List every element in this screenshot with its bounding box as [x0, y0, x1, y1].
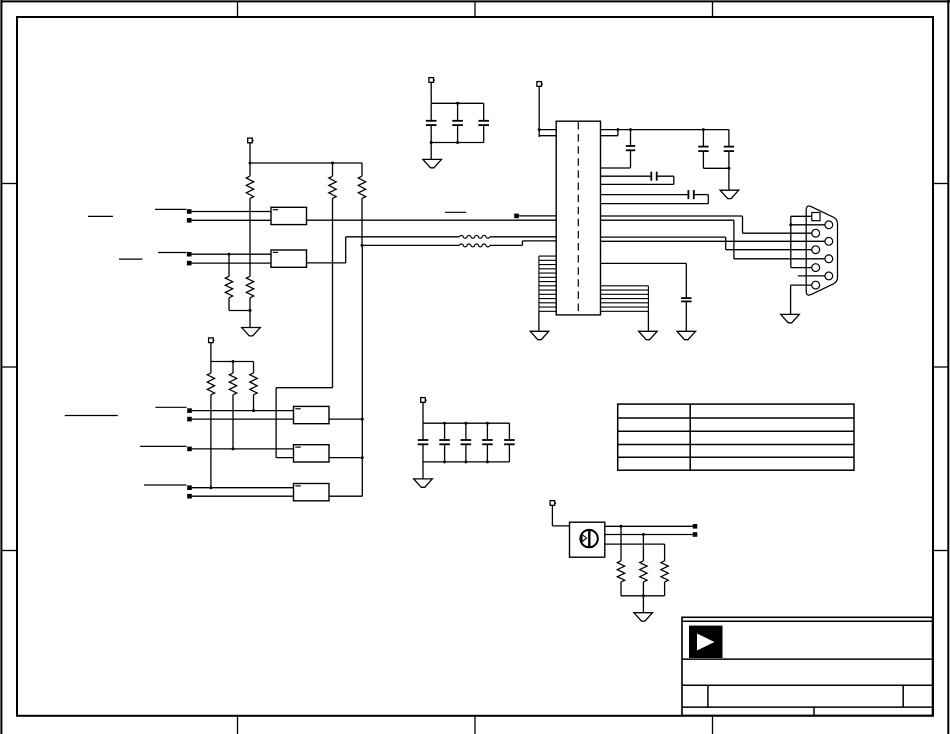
wire	[703, 167, 730, 170]
wire	[601, 195, 709, 204]
capacitor C9	[681, 298, 691, 301]
net label line RXD1	[88, 215, 113, 217]
capacitor C13	[482, 440, 493, 444]
wire	[457, 103, 459, 121]
capacitor C6	[724, 147, 734, 152]
wire	[642, 596, 644, 613]
ground	[530, 331, 549, 339]
power pin VCC6	[550, 501, 556, 506]
wire	[211, 360, 254, 363]
wire	[192, 418, 294, 420]
wire	[539, 135, 556, 137]
wire	[430, 143, 432, 160]
J1 pins 2-5 pads	[812, 229, 820, 289]
wire	[192, 447, 294, 450]
wire	[601, 263, 687, 298]
resistor R8	[250, 373, 257, 395]
wire	[642, 582, 644, 596]
port pin P4A	[187, 408, 192, 413]
wire	[430, 141, 484, 144]
J1 pin 9 stub	[798, 275, 825, 277]
wire	[192, 409, 294, 412]
wire	[192, 211, 272, 213]
connector J1 DB9 body	[806, 206, 837, 295]
net stub line	[144, 484, 187, 486]
wire	[483, 103, 485, 121]
wire	[210, 395, 212, 488]
ground	[414, 479, 433, 487]
wire	[249, 143, 251, 163]
wire	[423, 460, 509, 463]
wire	[249, 163, 251, 176]
title block	[682, 617, 933, 715]
wire	[728, 130, 730, 147]
wire	[702, 151, 704, 168]
capacitor C5	[698, 147, 708, 152]
wire	[307, 219, 557, 221]
capacitor C8	[688, 190, 693, 199]
ground	[720, 190, 739, 198]
wire	[329, 495, 362, 497]
wire	[192, 495, 294, 497]
capacitor C14	[504, 440, 515, 444]
wire	[791, 215, 812, 217]
wire	[361, 245, 363, 496]
wire	[789, 223, 825, 226]
port pin P3	[514, 214, 519, 219]
wire	[361, 163, 363, 176]
wire	[232, 395, 234, 449]
wire	[361, 198, 363, 245]
wire	[329, 418, 364, 421]
resistor R5	[246, 276, 253, 298]
wire	[465, 444, 467, 462]
wire	[601, 240, 825, 242]
wire	[229, 298, 252, 312]
wire	[422, 444, 424, 462]
wire	[228, 254, 230, 276]
wire	[249, 298, 251, 328]
power pin VCC2	[429, 78, 435, 83]
wire	[620, 526, 622, 561]
resistor R7	[229, 373, 236, 395]
resistor R11	[661, 561, 668, 582]
net stub line	[140, 445, 186, 447]
resistor R9	[617, 561, 624, 582]
wire	[276, 388, 332, 458]
wire	[630, 130, 632, 146]
potentiometer RT1 body	[570, 522, 605, 557]
capacitor C3	[478, 121, 489, 125]
wire	[483, 125, 485, 142]
capacitor C11	[439, 440, 450, 444]
wire	[249, 162, 363, 165]
power pin VCC4	[209, 338, 215, 343]
U1 right ground pins	[601, 286, 649, 312]
capacitor C7	[651, 172, 656, 181]
wire	[601, 128, 729, 131]
wire	[210, 362, 212, 374]
revision table	[618, 404, 854, 470]
resistor R2	[329, 176, 336, 198]
port pin P1A	[187, 209, 192, 214]
port pin P7	[693, 524, 698, 529]
resistor R4	[225, 276, 232, 298]
wire	[423, 422, 509, 425]
ground	[781, 314, 800, 322]
port pin P2B	[187, 261, 192, 266]
wire	[791, 267, 812, 269]
wire	[519, 215, 556, 217]
RT1 symbol	[580, 530, 597, 547]
capacitor C10	[418, 440, 429, 444]
ground	[634, 613, 653, 621]
power pin VCC5	[421, 398, 427, 403]
wire	[601, 220, 825, 259]
wire	[329, 456, 364, 459]
wire	[253, 362, 255, 374]
wire	[430, 103, 432, 121]
net stub line	[158, 252, 187, 254]
port pin P6A	[187, 485, 192, 490]
wire	[508, 423, 510, 440]
wire	[538, 86, 540, 137]
wire	[457, 125, 459, 142]
wire	[620, 582, 622, 596]
wire	[791, 284, 812, 286]
wire	[508, 444, 510, 462]
power pin VCC1	[248, 138, 254, 143]
component FB2	[271, 250, 307, 267]
wire	[664, 582, 666, 596]
wire	[790, 216, 792, 267]
wire	[601, 237, 812, 250]
wire	[490, 241, 556, 246]
wire	[601, 150, 631, 168]
wire	[538, 311, 540, 331]
wire	[728, 168, 730, 190]
ground	[423, 159, 442, 167]
wire	[601, 216, 812, 233]
wire	[444, 444, 446, 462]
wire	[621, 594, 665, 597]
wire	[702, 130, 704, 147]
component FB1	[271, 207, 307, 224]
wire	[346, 236, 460, 238]
wire	[465, 423, 467, 440]
net stub line	[155, 406, 186, 408]
wire	[605, 544, 665, 561]
J1 pins 6-9 pads	[825, 221, 833, 280]
component FB3	[294, 406, 330, 423]
wire	[210, 343, 212, 362]
capacitor C4	[626, 146, 635, 150]
component FB5	[294, 484, 330, 501]
wire	[444, 423, 446, 440]
wire	[332, 198, 334, 387]
capacitor C1	[426, 121, 437, 125]
capacitor C2	[452, 121, 463, 125]
inductor L2	[460, 244, 490, 247]
wire	[422, 402, 424, 423]
capacitor C12	[461, 440, 472, 444]
wire	[192, 253, 272, 256]
wire	[431, 102, 484, 105]
wire	[601, 194, 689, 196]
resistor R1	[246, 176, 253, 198]
resistor R6	[207, 373, 214, 395]
wire	[538, 128, 557, 131]
wire	[605, 525, 693, 528]
ground	[677, 331, 696, 339]
wire	[192, 486, 294, 489]
wire	[249, 198, 251, 276]
wire	[422, 462, 424, 479]
wire	[490, 236, 556, 238]
resistor R10	[640, 561, 647, 582]
J1 pin 1 pad	[812, 213, 820, 221]
wire	[430, 125, 432, 142]
U1 left ground pins	[539, 256, 556, 311]
wire	[601, 176, 674, 184]
port pin P4B	[187, 417, 192, 422]
wire	[790, 285, 792, 314]
wire	[307, 237, 346, 263]
wire	[422, 423, 424, 440]
component FB4	[294, 445, 330, 462]
transceiver U1 body	[556, 121, 600, 315]
wire	[486, 423, 488, 440]
ground	[639, 331, 658, 339]
wire	[361, 244, 460, 247]
resistor R3	[358, 176, 365, 198]
net label line	[445, 211, 466, 213]
net label line TXD1	[119, 258, 143, 260]
wire	[642, 535, 644, 561]
wire	[601, 130, 618, 136]
wire	[430, 82, 432, 103]
wire	[192, 262, 272, 264]
wire	[605, 533, 693, 536]
wire	[332, 163, 334, 176]
wire	[728, 151, 730, 168]
port pin P1B	[187, 218, 192, 223]
port pin P2A	[187, 252, 192, 257]
power pin VCC3	[537, 82, 543, 87]
inductor L1	[460, 235, 490, 238]
U1 isolation barrier dashed line	[577, 122, 579, 314]
wire	[486, 444, 488, 462]
ground	[242, 328, 261, 336]
net label line	[65, 415, 118, 417]
wire	[552, 505, 569, 526]
wire	[232, 362, 234, 374]
port pin P6B	[187, 494, 192, 499]
logo	[689, 626, 723, 658]
wire	[253, 395, 255, 411]
port pin P5	[187, 447, 192, 452]
wire	[685, 301, 687, 331]
wire	[601, 175, 652, 177]
net stub line	[155, 208, 187, 210]
port pin P8	[693, 532, 698, 537]
wire	[192, 219, 272, 221]
wire	[647, 311, 649, 331]
